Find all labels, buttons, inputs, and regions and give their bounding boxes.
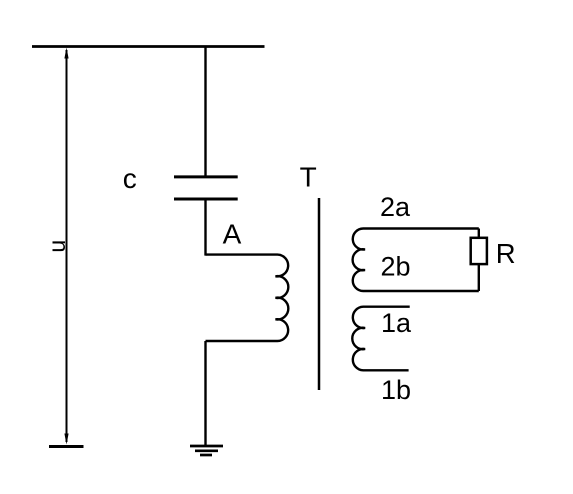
svg-text:A: A	[223, 219, 242, 250]
secondary winding 1a-1b	[352, 307, 409, 371]
svg-text:T: T	[300, 162, 317, 193]
wire: bus to capacitor	[204, 47, 206, 177]
ground symbol	[190, 446, 223, 455]
bottom reference bar of u arrow	[49, 445, 84, 448]
wire: resistor to winding 2b	[478, 264, 480, 291]
transformer core line	[318, 198, 321, 390]
inductor primary winding (coil at node A)	[206, 255, 289, 341]
wire: capacitor to node A	[204, 200, 206, 256]
svg-text:R: R	[496, 238, 516, 269]
secondary winding 2a-2b	[353, 229, 479, 292]
wire: winding 2a to resistor	[478, 229, 480, 239]
svg-text:2b: 2b	[381, 252, 411, 282]
wire: coil to ground	[204, 341, 206, 446]
svg-text:c: c	[123, 163, 137, 194]
bus bar (top horizontal line)	[32, 45, 265, 48]
svg-text:u: u	[44, 240, 70, 253]
capacitor C bottom plate	[174, 198, 238, 201]
svg-text:1a: 1a	[381, 308, 412, 338]
arrowhead down (bottom of u arrow)	[64, 434, 68, 445]
arrowhead up (top of u arrow)	[64, 48, 68, 59]
wire: voltage arrow line u	[66, 50, 68, 442]
capacitor C top plate	[174, 175, 238, 178]
svg-text:1b: 1b	[381, 375, 411, 405]
svg-text:2a: 2a	[380, 192, 411, 222]
resistor R	[471, 238, 487, 264]
